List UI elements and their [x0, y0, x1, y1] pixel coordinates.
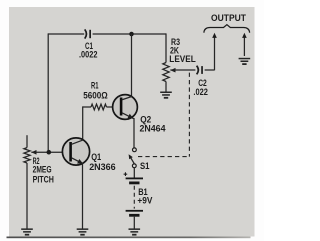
svg-text:S1: S1 [140, 161, 150, 171]
svg-text:5600Ω: 5600Ω [83, 90, 108, 100]
svg-text:+9V: +9V [137, 195, 152, 205]
svg-text:.0022: .0022 [79, 49, 98, 59]
svg-text:2N464: 2N464 [140, 124, 166, 134]
svg-text:R1: R1 [91, 80, 99, 90]
svg-text:LEVEL: LEVEL [169, 54, 196, 64]
svg-text:.022: .022 [193, 87, 208, 97]
svg-text:2N366: 2N366 [89, 162, 116, 172]
svg-text:PITCH: PITCH [33, 174, 54, 184]
svg-text:OUTPUT: OUTPUT [211, 13, 246, 24]
svg-text:2MEG: 2MEG [33, 165, 52, 175]
svg-text:Q1: Q1 [91, 152, 101, 162]
